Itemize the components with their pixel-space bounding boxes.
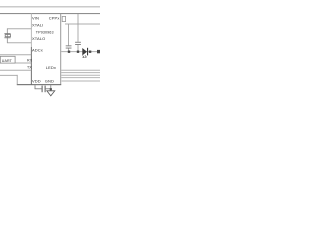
junction node B [77,51,79,53]
wire rail2 drop at x78 [77,14,80,42]
svg-text:VIN: VIN [32,15,39,20]
wire VDD drop [34,85,37,89]
wire XTALI from crystal to U1 [7,27,31,30]
wire CPPx [65,23,100,26]
pin bracket CPPx [62,16,65,21]
wire VSS bottom / U1 bottom edge [17,84,61,85]
wire LED row [61,50,97,53]
IC U1 TP930963 body [31,13,61,84]
svg-text:GND: GND [45,78,54,83]
junction node A [68,51,70,53]
wire VSS left horizontal [0,74,18,77]
wire right pin 3 [61,74,100,77]
svg-text:LEDx: LEDx [46,65,56,70]
svg-text:XTALO: XTALO [32,36,45,41]
wire right pin 4 [61,76,100,79]
wire C1 drop from CPPx wire [67,24,70,45]
wire RX from UART to U1 [15,62,31,65]
wire C1 to LED wire [67,49,70,52]
svg-text:TX: TX [27,66,32,70]
svg-text:CPPx: CPPx [49,16,60,21]
UART box [0,56,15,63]
svg-text:ADCx: ADCx [32,47,43,52]
capacitor C1 [66,45,72,48]
wire top rail 1 [0,5,100,8]
capacitor C3 [42,86,46,93]
junction node D [50,88,52,90]
wire VSS left vertical [16,75,19,85]
svg-text:TP930963: TP930963 [36,30,54,34]
svg-text:RX: RX [27,58,33,62]
wire XTALO from crystal to U1 [7,41,31,44]
gray annotation band [61,80,100,82]
svg-text:XTALI: XTALI [32,23,43,28]
wire TX [0,69,31,72]
wire C2 to LED wire [77,45,80,52]
wire crystal vertical [6,28,9,43]
ground [47,91,55,96]
wire C3 to GND net [46,87,51,90]
wire top rail 2 [0,13,100,14]
wire right pin 2 [61,71,100,74]
capacitor C2 [75,42,81,45]
LED D1 [82,48,88,58]
wire VDD to C3 [35,87,42,90]
wire right pin 1 [61,69,100,72]
wire ADCx [0,53,31,56]
background [0,0,100,100]
svg-text:UART: UART [2,59,13,63]
junction node C [89,51,91,53]
crystal Y1 [4,33,10,38]
svg-text:VDD: VDD [32,78,41,83]
terminal blob [97,50,100,53]
wire GND drop [49,85,52,90]
